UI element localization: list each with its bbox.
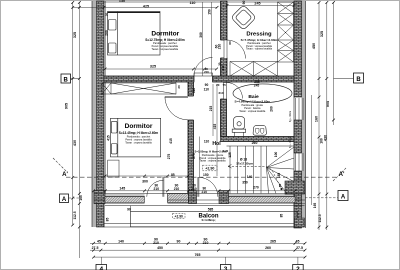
dormitor2 interior dim line <box>105 175 188 177</box>
svg-text:2: 2 <box>296 266 300 270</box>
svg-text:200: 200 <box>270 106 274 112</box>
svg-text:130: 130 <box>119 0 125 3</box>
svg-text:Tavan : vopsea lavabila: Tavan : vopsea lavabila <box>200 160 227 163</box>
svg-text:140: 140 <box>118 239 124 243</box>
svg-text:450: 450 <box>157 246 163 250</box>
svg-text:360: 360 <box>199 32 203 38</box>
svg-text:45: 45 <box>296 239 300 243</box>
svg-text:140: 140 <box>221 65 225 70</box>
svg-text:30: 30 <box>105 13 109 17</box>
top dims <box>119 0 261 71</box>
svg-text:110: 110 <box>204 140 209 144</box>
svg-text:Hol: Hol <box>212 141 221 147</box>
svg-text:415: 415 <box>213 124 217 130</box>
dormitor1 interior dim line <box>105 68 217 70</box>
svg-text:210: 210 <box>203 241 209 245</box>
toilet <box>232 117 246 137</box>
svg-text:B: B <box>356 77 361 83</box>
svg-text:Tavan : vopsea lavabila: Tavan : vopsea lavabila <box>246 48 273 51</box>
svg-text:430: 430 <box>73 140 77 146</box>
svg-text:200: 200 <box>104 30 108 36</box>
grid bubble 1 <box>96 265 107 270</box>
baie bottom wall <box>221 137 295 142</box>
svg-text:Dormitor: Dormitor <box>151 30 179 37</box>
interior bottom dim line <box>94 190 305 192</box>
bottom exterior wall piers <box>94 181 305 204</box>
svg-text:215: 215 <box>209 106 213 112</box>
bottom dim row2 <box>90 249 305 251</box>
svg-text:112.5: 112.5 <box>318 214 322 222</box>
svg-text:hg + 30cm: hg + 30cm <box>289 111 292 122</box>
svg-text:165: 165 <box>79 195 83 201</box>
svg-text:275: 275 <box>167 154 171 160</box>
room balcon label <box>198 214 218 222</box>
svg-text:90: 90 <box>127 208 131 212</box>
svg-text:905: 905 <box>65 103 69 109</box>
stair window in right wall <box>296 153 304 171</box>
svg-text:27.5: 27.5 <box>296 246 303 250</box>
svg-text:Dormitor: Dormitor <box>125 123 153 130</box>
baie window in right wall <box>296 98 304 120</box>
svg-text:90: 90 <box>177 239 181 243</box>
svg-text:310: 310 <box>192 88 196 94</box>
svg-text:260: 260 <box>252 141 258 145</box>
dim ticks <box>71 1 335 258</box>
door hol to dormitor2 <box>165 96 193 120</box>
dormitor1 interior dims <box>104 13 209 74</box>
stairs winder treads <box>267 146 295 194</box>
room dressing label <box>241 32 278 51</box>
svg-text:415: 415 <box>106 135 110 141</box>
svg-text:145: 145 <box>119 186 125 190</box>
door hol to dormitor1 (in mid wall) <box>194 58 213 82</box>
marker B left <box>61 74 79 83</box>
room dormitor1 label <box>145 30 185 51</box>
marker B right <box>334 73 364 83</box>
level marker balcon <box>173 213 186 218</box>
balcony door dormitor2 <box>147 177 164 197</box>
svg-text:350: 350 <box>242 180 248 184</box>
bottom dim row1 <box>90 242 305 244</box>
svg-text:110: 110 <box>204 87 209 91</box>
svg-text:hg + 30cm: hg + 30cm <box>289 137 292 148</box>
svg-text:90: 90 <box>242 1 246 5</box>
bubble leaders <box>101 257 103 264</box>
corridor dim lines vertical <box>201 2 203 76</box>
svg-text:300: 300 <box>142 180 148 184</box>
svg-text:245: 245 <box>254 84 260 88</box>
svg-text:430: 430 <box>324 135 328 141</box>
svg-text:210: 210 <box>153 241 159 245</box>
section line A-A' dashed across plan <box>66 176 336 178</box>
svg-text:270: 270 <box>253 186 259 190</box>
wardrobe dressing bottom row <box>230 62 278 77</box>
bottom dim row3 <box>94 256 305 258</box>
svg-text:4: 4 <box>99 266 103 270</box>
svg-text:A: A <box>62 197 67 203</box>
svg-text:Tavan : vopsea lavabila: Tavan : vopsea lavabila <box>152 47 179 51</box>
svg-text:2.70: 2.70 <box>223 149 229 153</box>
sink baie <box>253 126 266 136</box>
svg-text:30: 30 <box>177 85 181 89</box>
svg-text:160: 160 <box>314 116 318 122</box>
room hol label <box>195 141 228 163</box>
svg-text:Tavan : vopsea lavabila: Tavan : vopsea lavabila <box>239 110 266 113</box>
svg-text:S=13.45mp; H liber=2.60m: S=13.45mp; H liber=2.60m <box>119 131 159 135</box>
balcony outline <box>104 206 305 227</box>
svg-text:210: 210 <box>174 187 180 191</box>
svg-text:265: 265 <box>270 239 276 243</box>
svg-text:325: 325 <box>320 31 324 37</box>
stair dims <box>228 152 282 190</box>
marker A' right <box>333 168 346 181</box>
mid horizontal wall <box>104 76 294 82</box>
svg-text:S=4.38mp;: S=4.38mp; <box>201 218 215 222</box>
svg-text:30: 30 <box>218 62 222 66</box>
svg-text:85: 85 <box>171 173 175 177</box>
right exterior wall <box>294 1 306 228</box>
svg-text:85: 85 <box>279 214 283 218</box>
svg-text:260: 260 <box>265 246 271 250</box>
baie dims <box>216 80 292 148</box>
svg-text:185: 185 <box>277 173 281 179</box>
svg-text:Tavan : vopsea lavabila: Tavan : vopsea lavabila <box>125 140 152 144</box>
svg-text:425: 425 <box>143 4 149 8</box>
marker A' left <box>53 158 68 178</box>
svg-text:125: 125 <box>228 152 232 158</box>
left dim line inner <box>78 2 80 258</box>
svg-text:20: 20 <box>216 83 220 87</box>
left exterior wall <box>92 1 106 227</box>
svg-text:110: 110 <box>190 1 196 5</box>
grid bubble 3 <box>293 265 304 270</box>
svg-text:85: 85 <box>106 218 110 222</box>
level marker hol <box>203 165 218 171</box>
svg-text:210: 210 <box>202 190 208 194</box>
wall dormitor2 / hol <box>188 82 194 194</box>
marker A right <box>305 191 348 201</box>
svg-text:150: 150 <box>203 173 209 177</box>
svg-text:585: 585 <box>208 208 214 212</box>
bed dormitor1 <box>108 12 161 56</box>
right dim lines <box>311 95 313 205</box>
dormitor2 interior dims <box>106 135 208 194</box>
corridor dims <box>177 83 217 129</box>
svg-text:210: 210 <box>218 44 222 50</box>
svg-text:60: 60 <box>228 41 232 45</box>
svg-text:210: 210 <box>154 187 160 191</box>
window dormitor2 bottom <box>105 195 145 203</box>
stairs walk line <box>228 166 281 188</box>
svg-text:325: 325 <box>73 32 77 38</box>
svg-text:100: 100 <box>274 152 278 158</box>
top dim line dormitor1 <box>73 6 217 8</box>
balcony door hol <box>198 177 218 197</box>
top cut edge lines <box>104 1 294 3</box>
svg-text:A': A' <box>339 172 345 178</box>
svg-text:B: B <box>64 77 69 83</box>
marker A left <box>60 194 80 203</box>
svg-text:A: A <box>341 195 346 201</box>
balcony dims <box>106 208 284 222</box>
svg-text:140: 140 <box>247 175 253 179</box>
bathtub ellipse <box>233 84 292 103</box>
top dim line dressing <box>227 5 294 7</box>
stairs walk arrow <box>228 165 283 191</box>
svg-text:245: 245 <box>254 2 260 6</box>
svg-text:325: 325 <box>150 65 156 69</box>
svg-text:165: 165 <box>313 203 317 209</box>
wardrobe dormitor2 <box>102 83 176 94</box>
svg-text:+2.90: +2.90 <box>205 167 214 171</box>
svg-text:275: 275 <box>192 153 196 159</box>
svg-text:45: 45 <box>97 239 101 243</box>
svg-text:112.5: 112.5 <box>73 211 77 219</box>
svg-text:27.5: 27.5 <box>92 246 99 250</box>
pouf dressing <box>231 5 256 30</box>
svg-text:85: 85 <box>278 184 282 188</box>
right dims rotated <box>312 31 330 223</box>
grid bubble 2 <box>220 265 231 270</box>
wardrobe dressing right column <box>278 2 294 62</box>
bed dormitor2 <box>111 118 161 157</box>
svg-text:S=4.99mp; H liber=2.60m: S=4.99mp; H liber=2.60m <box>235 100 271 104</box>
svg-text:210: 210 <box>218 91 223 95</box>
svg-text:3: 3 <box>224 266 228 270</box>
svg-text:905: 905 <box>326 101 330 107</box>
svg-text:17x17.35cm: 17x17.35cm <box>236 162 253 166</box>
svg-text:415: 415 <box>169 138 173 144</box>
hol dims <box>204 140 229 154</box>
svg-text:Dressing: Dressing <box>246 32 272 38</box>
window under stairs bottom <box>229 195 296 203</box>
left dim line outer <box>72 2 74 225</box>
svg-text:210: 210 <box>191 187 197 191</box>
svg-text:210: 210 <box>204 70 209 74</box>
left dims rotated <box>65 32 83 220</box>
stairs straight treads <box>227 146 295 194</box>
room dormitor2 label <box>119 123 159 145</box>
door dormitor1-dressing <box>221 40 246 59</box>
wall between dormitor1 and dressing <box>221 1 228 76</box>
baie left wall <box>221 99 227 137</box>
room baie label <box>235 94 271 113</box>
svg-text:765: 765 <box>195 253 201 257</box>
svg-text:150: 150 <box>208 9 212 15</box>
door hol to baie <box>221 83 243 100</box>
svg-text:+2.90: +2.90 <box>175 214 184 218</box>
svg-text:450: 450 <box>312 43 316 49</box>
bottom dim texts <box>92 238 303 258</box>
nightstand dormitor2 <box>108 160 119 177</box>
svg-text:75: 75 <box>223 83 227 87</box>
